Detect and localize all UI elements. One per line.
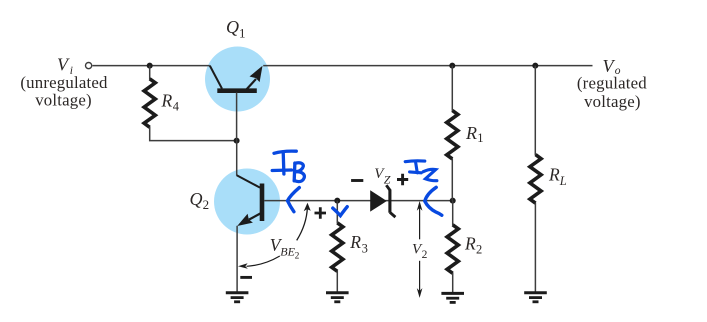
transistor Q1 emitter lead with arrow	[247, 79, 256, 89]
wire Q2 base rail to R1/R2 node	[264, 200, 453, 202]
svg-text:BE: BE	[280, 244, 295, 258]
wire Q1 base down to node	[236, 93, 238, 141]
transistor Q1 collector lead	[210, 66, 222, 89]
resistor RL	[530, 155, 541, 204]
wire R1 top lead	[451, 66, 453, 111]
wire R3 bottom lead	[336, 271, 338, 292]
plus sign at Q2 base	[315, 207, 327, 218]
svg-text:2: 2	[203, 197, 210, 212]
svg-text:L: L	[559, 174, 567, 188]
resistor R2	[447, 225, 458, 273]
ground (R3)	[326, 293, 349, 302]
svg-text:voltage): voltage)	[584, 92, 641, 111]
svg-text:1: 1	[477, 131, 483, 145]
svg-text:Q: Q	[226, 17, 239, 37]
curved pointer arrow from VBE2 to base (+)	[297, 208, 308, 241]
blue annotation IZ label	[405, 161, 437, 181]
wire RL top lead	[534, 66, 536, 155]
blue annotation IZ current arrowhead on wire	[425, 187, 442, 215]
highlight circle around Q1	[205, 47, 270, 112]
wire R1 bottom lead	[451, 159, 453, 201]
wire node down to Q2 collector	[236, 141, 238, 176]
ground (Q2 emitter)	[226, 293, 249, 302]
blue annotation IB label	[272, 151, 304, 182]
transistor Q2 emitter lead with arrow	[249, 213, 261, 219]
svg-text:Q: Q	[190, 189, 203, 209]
V2 arrow lower segment with down arrowhead	[419, 261, 421, 291]
resistor R1	[447, 110, 458, 158]
input terminal (open circle)	[86, 63, 92, 69]
wire R4 bottom lead and horizontal run to Q1 base node	[150, 127, 237, 141]
svg-text:R: R	[548, 165, 560, 185]
transistor Q1 base bar	[217, 88, 256, 93]
svg-text:3: 3	[362, 242, 368, 256]
svg-text:(regulated: (regulated	[577, 73, 647, 92]
label plus sign of VZ	[397, 174, 408, 185]
svg-text:R: R	[349, 232, 361, 252]
svg-text:2: 2	[422, 249, 428, 261]
svg-text:V: V	[57, 55, 70, 75]
svg-text:R: R	[161, 91, 173, 111]
transistor Q2 collector lead	[237, 175, 260, 187]
zener diode VZ anode triangle	[370, 190, 387, 211]
svg-text:R: R	[464, 234, 476, 254]
svg-text:(unregulated: (unregulated	[20, 73, 108, 92]
resistor R4	[144, 79, 155, 128]
curved pointer arrow from VBE2 to emitter (-)	[247, 256, 280, 266]
node: junction dot at RL top on output rail	[532, 63, 538, 69]
wire top rail right segment (Q1 emitter to Vo)	[263, 65, 592, 67]
wire RL bottom lead	[534, 203, 536, 292]
minus sign at Q2 emitter	[240, 276, 252, 279]
svg-text:2: 2	[295, 251, 300, 261]
wire R4 top lead	[149, 66, 151, 80]
blue annotation down-arrow at R3 top	[333, 207, 347, 216]
node: junction dot at R3 top	[334, 198, 340, 204]
svg-text:Z: Z	[384, 173, 391, 187]
wire top rail left segment (Vi terminal to Q1 collector)	[93, 65, 210, 67]
V2 arrow upper segment with up arrowhead	[419, 208, 421, 239]
node: junction dot at R4 top on input rail	[147, 63, 153, 69]
svg-text:4: 4	[173, 100, 180, 114]
node: junction dot R1/R2/zener cathode	[450, 198, 456, 204]
wire R2 top lead	[452, 201, 454, 226]
svg-text:2: 2	[476, 242, 482, 256]
wire Q2 emitter down to ground	[236, 226, 238, 292]
node: junction dot R4/Q1 base/Q2 collector	[234, 138, 240, 144]
ground (RL)	[524, 293, 547, 302]
wire R2 bottom lead	[452, 273, 454, 292]
wire R3 top lead	[336, 201, 338, 224]
transistor Q2 base bar	[260, 184, 265, 222]
highlight circle around Q2	[214, 169, 280, 235]
label minus sign of VZ	[351, 179, 363, 182]
blue annotation IB current arrowhead on base wire	[288, 188, 300, 212]
svg-text:1: 1	[239, 25, 246, 40]
node: junction dot at R1 top on output rail	[449, 63, 455, 69]
svg-text:R: R	[465, 123, 477, 143]
ground (R2)	[441, 293, 464, 302]
zener diode VZ cathode bar with bent ends	[386, 185, 395, 217]
svg-text:voltage): voltage)	[35, 90, 92, 109]
resistor R3	[332, 223, 343, 271]
